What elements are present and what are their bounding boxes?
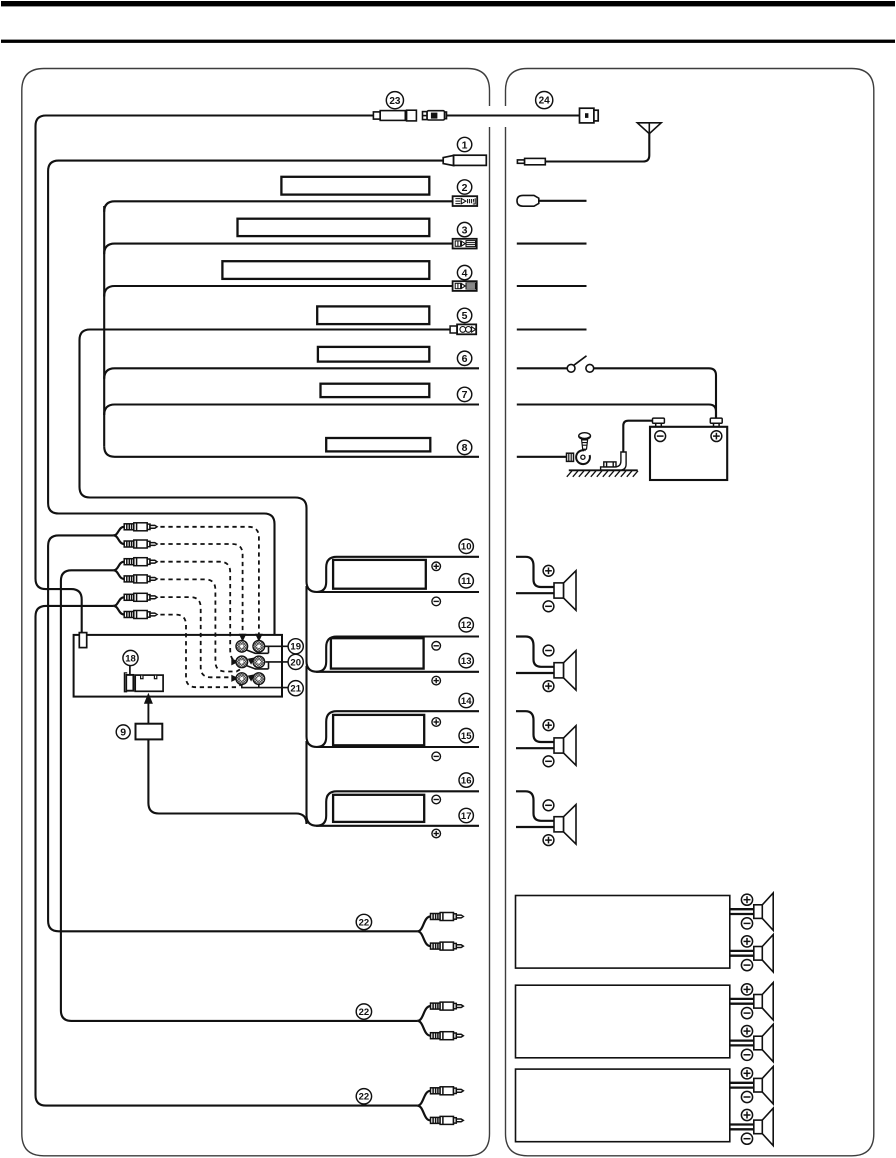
label 4 [457, 265, 471, 279]
amp 1 speaker 1 wires [730, 909, 754, 914]
amp 1 speaker 1 plus [741, 894, 752, 905]
wire from box 9 [148, 739, 306, 824]
wire 8 to ground lug [517, 456, 567, 458]
ground strap [601, 452, 627, 470]
label 22-1 [356, 914, 371, 929]
speaker lead riser pair 4 [316, 791, 479, 826]
amp 3 speaker 2 wires [730, 1125, 754, 1130]
label 11 [459, 574, 473, 588]
arrowhead jack row3 left [231, 675, 239, 682]
speaker 2 upper polarity [543, 645, 554, 656]
svg-text:8: 8 [462, 442, 468, 454]
wire stem segment 3 [307, 741, 480, 826]
amp 3 speaker 2 plus [741, 1109, 752, 1120]
battery body [650, 427, 727, 480]
page header thick rule [1, 1, 895, 6]
speaker 2 [554, 651, 576, 691]
RCA Y-split bottom pair 3 [417, 1091, 430, 1121]
label 21 [288, 681, 303, 696]
wire 2 [104, 201, 452, 212]
svg-text:23: 23 [389, 96, 401, 107]
label 2 [457, 180, 471, 194]
ground line [569, 469, 638, 471]
arrowhead jack row2 right [248, 657, 255, 664]
wire 6 [104, 368, 479, 379]
amp 1 speaker 2 icon [754, 935, 773, 972]
RCA cable run 1 [48, 535, 417, 931]
speaker 4 plus wire [516, 791, 554, 821]
label 20 [288, 654, 303, 669]
speaker 4 [554, 805, 576, 845]
speaker 1 plus wire [516, 557, 554, 587]
wire 8 [104, 446, 479, 457]
svg-text:13: 13 [461, 656, 472, 667]
RCA jack row2 left [236, 656, 248, 668]
wire bundle vertical [103, 206, 105, 446]
speaker 2 minus wire [516, 672, 554, 674]
ring terminal [567, 450, 590, 464]
RCA plug 22-1 top [431, 913, 464, 921]
box 4 [222, 261, 429, 279]
antenna lead [545, 134, 649, 162]
polarity mark lead 16 [432, 795, 441, 804]
wire 23 antenna lead [36, 116, 374, 634]
box 16-17 [333, 795, 424, 822]
connector 5 [450, 324, 476, 334]
box 2 [281, 177, 429, 195]
RCA jack row2 right [253, 656, 265, 668]
amp 3 speaker 1 icon [754, 1067, 773, 1104]
leader 21 [242, 684, 288, 688]
amp 3 speaker 2 minus [741, 1133, 752, 1144]
svg-text:12: 12 [461, 620, 472, 631]
svg-text:6: 6 [462, 353, 468, 365]
polarity mark lead 15 [432, 752, 441, 761]
connector 2 [453, 196, 478, 206]
label 17 [459, 808, 473, 822]
speaker 1 minus wire [516, 592, 554, 594]
svg-text:11: 11 [461, 576, 472, 587]
amplifier box 2 [516, 985, 730, 1058]
amplifier box 3 [516, 1069, 730, 1142]
svg-text:21: 21 [290, 684, 301, 695]
antenna plug [517, 158, 545, 164]
wire 6 switch to battery [594, 368, 716, 418]
box 12-13 [331, 638, 424, 668]
label 8 [457, 440, 471, 454]
label 7 [457, 387, 471, 401]
RCA jack row3 right [253, 673, 265, 685]
amp 2 speaker 1 minus [741, 1008, 752, 1019]
svg-text:22: 22 [359, 1007, 370, 1018]
connector 3 [453, 239, 477, 249]
box 8 [326, 438, 430, 451]
RCA Y-split top pair 1 [113, 527, 124, 544]
RCA cable run 2 [61, 570, 418, 1021]
polarity mark lead 11 [432, 597, 441, 606]
speaker 1 [554, 571, 576, 611]
label 16 [459, 773, 473, 787]
speaker 2 plus wire [516, 637, 554, 667]
box 7 [321, 384, 430, 397]
svg-text:18: 18 [125, 653, 136, 664]
amp 2 speaker 1 icon [754, 983, 773, 1020]
right panel frame [506, 69, 874, 1156]
RCA plug 22-2 bottom [431, 1032, 464, 1040]
label 3 [457, 222, 471, 236]
svg-text:5: 5 [462, 310, 468, 322]
connector 24 [580, 108, 599, 123]
speaker lead riser pair 1 [316, 557, 479, 592]
amp 3 speaker 1 plus [741, 1068, 752, 1079]
ground hatching [567, 471, 638, 477]
RCA plug pair2 top [124, 558, 157, 566]
amp 1 speaker 1 icon [754, 893, 773, 930]
amp 1 speaker 2 plus [741, 936, 752, 947]
svg-text:20: 20 [290, 657, 301, 668]
speaker 1 lower polarity [543, 601, 554, 612]
antenna receptacle plug [79, 633, 86, 648]
wire 3 [104, 244, 452, 255]
ground screw [579, 433, 591, 453]
ignition switch [567, 356, 594, 372]
svg-text:1: 1 [462, 139, 468, 151]
svg-text:4: 4 [462, 267, 468, 279]
leader 19 [246, 646, 288, 653]
box 10-11 [333, 560, 426, 589]
speaker 2 lower polarity [543, 681, 554, 692]
label 15 [459, 728, 473, 742]
amp 1 speaker 2 minus [741, 960, 752, 971]
svg-text:10: 10 [461, 542, 472, 553]
battery ground wire [623, 421, 652, 452]
svg-text:3: 3 [462, 224, 468, 236]
amplifier box 1 [516, 896, 730, 969]
RCA plug 22-3 top [431, 1087, 464, 1095]
connector 18 receptacle [135, 675, 163, 691]
label 18 [123, 650, 138, 665]
label 12 [459, 618, 473, 632]
amp 3 speaker 1 minus [741, 1091, 752, 1102]
label 9 [116, 725, 130, 739]
label 23 [386, 92, 403, 109]
RCA jack row1 left [236, 640, 248, 652]
label 19 [288, 639, 303, 654]
label 13 [459, 654, 473, 668]
label 10 [459, 539, 473, 553]
svg-text:17: 17 [461, 811, 472, 822]
battery terminal minus [653, 418, 665, 427]
connector 23 plug [423, 111, 447, 120]
dashed link 5 [160, 597, 231, 677]
box 14-15 [333, 715, 424, 745]
wire 7 [104, 405, 479, 416]
svg-text:9: 9 [120, 727, 126, 739]
polarity mark lead 13 [432, 676, 441, 685]
speaker 4 lower polarity [543, 835, 554, 846]
amp 2 speaker 1 wires [730, 999, 754, 1004]
RCA plug pair3 bottom [124, 611, 157, 619]
polarity mark lead 12 [432, 642, 441, 651]
box 9 [136, 724, 163, 740]
wire stem segment 1 [307, 586, 480, 672]
RCA cable run 3 [36, 606, 418, 1106]
RCA plug pair3 top [124, 593, 157, 601]
arrow from box 9 to unit [144, 693, 153, 724]
connector 23 socket [373, 110, 416, 121]
wire 3 continuation [517, 243, 587, 245]
label 18 leader [129, 666, 131, 675]
arrowhead jack row3 right [248, 674, 255, 681]
label 6 [457, 351, 471, 365]
speaker 4 upper polarity [543, 800, 554, 811]
speaker 3 upper polarity [543, 720, 554, 731]
connector 18 plug [126, 675, 133, 691]
connector 1 power connector [443, 155, 486, 165]
amp 3 speaker 2 icon [754, 1108, 773, 1145]
wire 1 power connector lead [48, 161, 443, 641]
svg-text:14: 14 [461, 696, 472, 707]
wire 4 [104, 286, 452, 297]
svg-text:24: 24 [539, 96, 551, 107]
polarity mark lead 10 [432, 562, 441, 571]
label 22-3 [356, 1089, 371, 1104]
speaker lead riser pair 2 [316, 637, 479, 672]
remote lead [539, 200, 587, 202]
battery terminal plus [710, 418, 722, 427]
wire 4 continuation [517, 285, 587, 287]
dashed link 4 [160, 579, 247, 671]
svg-text:22: 22 [359, 917, 370, 928]
leader 20 [246, 662, 288, 669]
svg-text:2: 2 [462, 182, 468, 194]
wire 5 and speaker lead stem [80, 330, 480, 593]
dashed link 1 [160, 527, 259, 637]
dashed link 6 [160, 615, 247, 688]
RCA plug pair2 bottom [124, 575, 157, 583]
label 24 [536, 92, 553, 109]
antenna symbol [637, 123, 661, 134]
speaker 3 [554, 726, 576, 766]
speaker lead riser pair 3 [316, 711, 479, 747]
RCA Y-split bottom pair 2 [417, 1006, 430, 1036]
polarity mark lead 14 [432, 718, 441, 727]
amp 2 speaker 2 plus [741, 1026, 752, 1037]
RCA Y-split top pair 2 [113, 562, 124, 579]
amp 1 speaker 2 wires [730, 951, 754, 956]
svg-text:15: 15 [461, 731, 472, 742]
RCA Y-split bottom pair 1 [417, 917, 430, 947]
wire 7 to battery [517, 405, 716, 419]
box 6 [318, 347, 429, 362]
amp 1 speaker 1 minus [741, 918, 752, 929]
RCA plug 22-3 bottom [431, 1116, 464, 1124]
chassis block [604, 462, 616, 467]
wire 5 continuation [517, 328, 587, 330]
arrowhead jack row2 left [231, 658, 239, 665]
left panel frame [22, 69, 490, 1156]
arrowhead jack row1 right [255, 634, 263, 642]
RCA plug pair1 bottom [124, 540, 157, 548]
connector 18 bracket [124, 673, 127, 692]
RCA plug pair1 top [124, 523, 157, 531]
arrowhead jack row1 left [239, 634, 247, 642]
wire 6 to switch [517, 367, 567, 369]
dashed link 2 [160, 544, 242, 637]
speaker 1 upper polarity [543, 565, 554, 576]
polarity mark lead 17 [432, 829, 441, 838]
amp 2 speaker 2 icon [754, 1024, 773, 1061]
label 14 [459, 693, 473, 707]
RCA Y-split top pair 3 [113, 597, 124, 614]
RCA jack row1 right [253, 640, 265, 652]
svg-text:7: 7 [462, 389, 468, 401]
head unit rear panel [74, 635, 282, 697]
RCA plug 22-2 top [431, 1002, 464, 1010]
wire stem segment 2 [307, 666, 480, 747]
RCA plug 22-1 bottom [431, 942, 464, 950]
speaker 3 minus wire [516, 747, 554, 749]
remote plug [517, 195, 539, 206]
amp 2 speaker 1 plus [741, 984, 752, 995]
speaker 3 plus wire [516, 711, 554, 742]
dashed link 3 [160, 562, 235, 661]
amp 2 speaker 2 minus [741, 1049, 752, 1060]
svg-text:19: 19 [290, 642, 301, 653]
amp 2 speaker 2 wires [730, 1041, 754, 1046]
speaker 3 lower polarity [543, 756, 554, 767]
page header thin rule [1, 40, 895, 43]
label 22-2 [356, 1004, 371, 1019]
battery plus sign [711, 431, 722, 442]
label 5 [457, 308, 471, 322]
svg-text:22: 22 [359, 1092, 370, 1103]
battery minus sign [655, 431, 666, 442]
box 5 [317, 306, 429, 324]
wire 23-24 link [447, 114, 580, 116]
connector 4 [453, 281, 477, 291]
amp 3 speaker 1 wires [730, 1083, 754, 1088]
RCA jack row3 left [236, 673, 248, 685]
box 3 [238, 219, 430, 236]
svg-text:16: 16 [461, 776, 472, 787]
speaker 4 minus wire [516, 826, 554, 828]
label 1 [457, 137, 471, 151]
